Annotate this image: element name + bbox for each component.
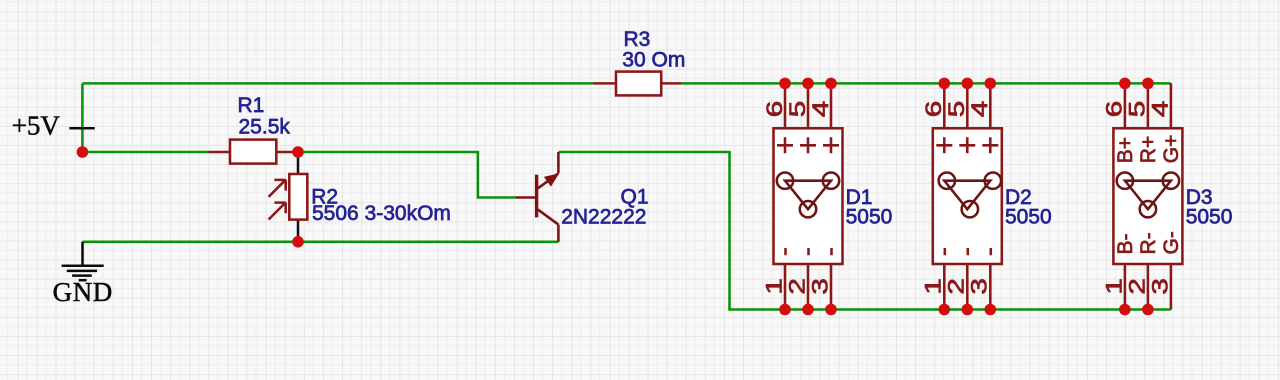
junction dot +5V node xyxy=(77,146,89,158)
junction dots bottom rail D1 xyxy=(779,304,791,316)
LED D1 xyxy=(761,83,892,309)
wire: top rail (R3 right pin to D3 pin4) xyxy=(681,82,1171,85)
svg-text:5050: 5050 xyxy=(1186,205,1233,228)
D3 LED triangle symbol xyxy=(1125,181,1171,210)
wire: GND rail to Q1 collector xyxy=(83,241,559,244)
junction dots top rail D3 xyxy=(1119,78,1131,90)
svg-text:2: 2 xyxy=(1124,278,1149,295)
D1 LED triangle symbol xyxy=(785,181,831,210)
svg-text:1: 1 xyxy=(920,278,945,295)
wire: top rail (+5V to R3 left pin) xyxy=(82,82,593,85)
D1 pin leads top xyxy=(785,83,831,128)
supply symbol +5V bar xyxy=(69,127,94,130)
D2 LED triangle symbol xyxy=(944,181,990,210)
svg-text:2N22222: 2N22222 xyxy=(561,206,646,229)
svg-text:25.5k: 25.5k xyxy=(239,115,291,138)
svg-text:3: 3 xyxy=(966,278,991,295)
svg-text:6: 6 xyxy=(762,101,787,118)
resistor R2 (photoresistor) xyxy=(289,174,307,220)
wire: +5V to R1 left pin xyxy=(82,151,208,154)
svg-text:R1: R1 xyxy=(238,94,265,117)
D2 LED circles xyxy=(939,173,955,189)
resistor R1 xyxy=(209,140,299,164)
svg-text:B+: B+ xyxy=(1114,137,1137,163)
svg-text:R+: R+ xyxy=(1137,136,1160,163)
svg-text:4: 4 xyxy=(808,101,833,118)
svg-text:+5V: +5V xyxy=(12,110,61,140)
svg-text:B-: B- xyxy=(1114,233,1137,254)
wire: R1 junction to R2 top (black) xyxy=(297,152,300,174)
svg-text:GND: GND xyxy=(53,277,113,307)
junction dot R2/GND node xyxy=(292,236,304,248)
svg-text:G+: G+ xyxy=(1160,135,1183,164)
D3 package outline xyxy=(1113,128,1182,264)
svg-text:5: 5 xyxy=(1124,101,1149,118)
D2 pin leads bottom xyxy=(944,264,990,310)
D3 pin leads top xyxy=(1125,83,1171,128)
svg-text:3: 3 xyxy=(1147,278,1172,295)
wire: +5V vertical riser to top rail xyxy=(81,83,84,152)
LED D2 xyxy=(920,83,1051,309)
svg-text:4: 4 xyxy=(967,101,992,118)
junction dots top rail D1 xyxy=(779,78,791,90)
wire: R1 right pin to Q1 base pin xyxy=(298,152,515,198)
D3 pin leads bottom xyxy=(1125,264,1171,310)
D1 pin leads bottom xyxy=(785,264,831,310)
svg-text:3: 3 xyxy=(807,278,832,295)
D1 plus marks xyxy=(777,137,839,153)
svg-text:5050: 5050 xyxy=(846,205,893,228)
svg-text:30 Om: 30 Om xyxy=(622,48,685,71)
svg-text:6: 6 xyxy=(921,101,946,118)
svg-text:6: 6 xyxy=(1101,101,1126,118)
svg-text:5: 5 xyxy=(944,101,969,118)
wire: R2 bottom to GND rail (black) xyxy=(297,220,300,242)
D2 package outline xyxy=(933,128,1002,264)
LED D3 xyxy=(1101,83,1232,309)
resistor R3 xyxy=(594,72,682,96)
svg-text:1: 1 xyxy=(761,278,786,295)
D2 plus marks xyxy=(936,137,998,153)
svg-text:G-: G- xyxy=(1160,231,1183,254)
svg-text:R-: R- xyxy=(1137,232,1160,254)
wire: Q1 emitter to LED bottom rail xyxy=(558,152,1171,310)
svg-text:1: 1 xyxy=(1101,278,1126,295)
junction dots bottom rail D2 xyxy=(939,304,951,316)
transistor Q1 emitter arrow xyxy=(544,173,559,186)
svg-text:5050: 5050 xyxy=(1005,205,1052,228)
junction dots bottom rail D3 xyxy=(1119,304,1131,316)
junction dots top rail D2 xyxy=(939,78,951,90)
svg-text:4: 4 xyxy=(1147,101,1172,118)
ground symbol GND xyxy=(62,242,104,280)
D1 package outline xyxy=(774,128,843,264)
svg-text:2: 2 xyxy=(784,278,809,295)
photoresistor arrows R2 xyxy=(269,180,286,220)
svg-text:2: 2 xyxy=(943,278,968,295)
D1 LED circles xyxy=(777,173,793,189)
D2 minus marks xyxy=(945,248,991,255)
D1 minus marks xyxy=(786,248,832,255)
svg-text:5506 3-30kOm: 5506 3-30kOm xyxy=(312,202,451,225)
svg-text:5: 5 xyxy=(785,101,810,118)
D3 LED circles xyxy=(1117,173,1133,189)
D2 pin leads top xyxy=(944,83,990,128)
transistor Q1 xyxy=(515,152,558,242)
junction dot R1/R2 node xyxy=(292,146,304,158)
